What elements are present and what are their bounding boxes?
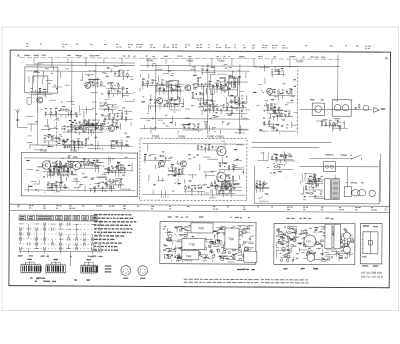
svg-text:T30: T30: [189, 243, 195, 247]
svg-text:T65: T65: [306, 239, 312, 243]
svg-text:TR65: TR65: [178, 135, 186, 139]
svg-text:TK60: TK60: [217, 59, 225, 63]
svg-text:TK80: TK80: [296, 59, 304, 63]
svg-text:TR60: TR60: [152, 134, 160, 138]
svg-text:T50: T50: [198, 226, 204, 230]
svg-text:TR30: TR30: [39, 149, 47, 153]
svg-text:C: C: [385, 206, 388, 211]
svg-text:TR80+TR85: TR80+TR85: [207, 135, 225, 139]
svg-text:TK40: TK40: [146, 58, 154, 62]
svg-text:T60: T60: [228, 237, 234, 241]
svg-text:A: A: [385, 55, 388, 60]
svg-text:T40: T40: [186, 254, 192, 258]
svg-text:TR40: TR40: [69, 149, 77, 153]
svg-text:MF FN 727 W B: MF FN 727 W B: [361, 275, 383, 279]
svg-text:A: A: [17, 53, 20, 58]
